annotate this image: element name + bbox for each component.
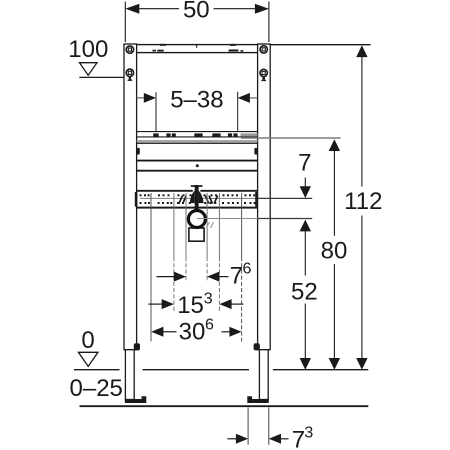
svg-text:0–25: 0–25 xyxy=(70,375,123,402)
svg-text:7: 7 xyxy=(292,427,305,450)
slab line xyxy=(80,405,369,407)
svg-text:100: 100 xyxy=(68,36,108,63)
dimension 15-3 row xyxy=(148,290,243,319)
frame top bar xyxy=(125,44,270,53)
svg-text:5–38: 5–38 xyxy=(170,86,223,113)
dimension 7 xyxy=(298,150,311,199)
right foot plate xyxy=(247,396,268,403)
dimension 30-6 row xyxy=(151,317,241,346)
label 0 with level triangle xyxy=(78,327,98,366)
svg-text:30: 30 xyxy=(179,318,206,345)
svg-text:3: 3 xyxy=(304,425,313,442)
plate perforation dots xyxy=(140,194,256,204)
perforated mounting plate xyxy=(135,191,258,208)
dimension 50 top xyxy=(125,0,269,42)
vertical extension ladder lines xyxy=(150,193,152,342)
left foot plate xyxy=(125,396,147,403)
reference line 80 top (gray) xyxy=(241,137,341,139)
svg-text:6: 6 xyxy=(243,261,252,278)
plate hatch slashes xyxy=(179,196,218,204)
crossmember with end caps and screw dot xyxy=(137,148,258,171)
svg-text:80: 80 xyxy=(321,237,348,264)
svg-text:7: 7 xyxy=(230,262,243,289)
drain anchor symbol xyxy=(190,185,204,211)
frame right rail xyxy=(258,44,271,350)
drain center reference line xyxy=(197,218,312,220)
crossbar lower chords xyxy=(137,141,258,143)
left foot xyxy=(125,350,134,400)
right leg clamp xyxy=(254,343,260,350)
svg-text:112: 112 xyxy=(344,188,382,215)
right foot xyxy=(259,350,268,400)
rail fastener top-left xyxy=(126,46,133,53)
left leg clamp xyxy=(134,343,140,350)
label 100 with level triangle xyxy=(68,36,124,78)
drain ring side hatch marks xyxy=(207,222,214,228)
drain outlet ring xyxy=(188,211,205,228)
frame left rail xyxy=(124,44,137,350)
dimension 5-38 xyxy=(137,86,258,131)
dimension 112 xyxy=(270,45,382,370)
svg-text:7: 7 xyxy=(298,150,311,177)
rail fastener top-right xyxy=(260,46,267,53)
dimension 7-6 row xyxy=(157,261,252,290)
crossbar (adjustable mounting bar) xyxy=(137,132,258,137)
dimension 7-3 bottom xyxy=(227,408,313,450)
dimension 52 xyxy=(291,220,318,370)
floor level line xyxy=(74,369,368,371)
reference line at plate holes row xyxy=(140,197,312,199)
rail fastener lower-right with screw tip xyxy=(260,69,267,81)
svg-text:15: 15 xyxy=(177,292,204,319)
svg-text:3: 3 xyxy=(204,290,213,307)
rail fastener lower-left with screw tip xyxy=(126,69,133,81)
svg-text:50: 50 xyxy=(183,0,210,23)
drain trap rectangle xyxy=(189,228,204,241)
svg-text:0: 0 xyxy=(81,327,94,354)
svg-text:6: 6 xyxy=(205,317,214,334)
dimension 80 xyxy=(321,139,348,370)
svg-text:52: 52 xyxy=(291,279,318,306)
